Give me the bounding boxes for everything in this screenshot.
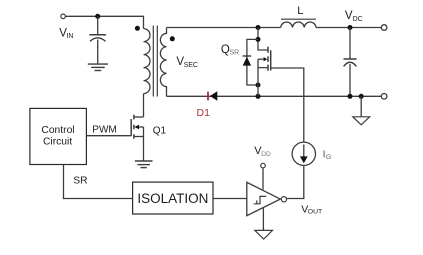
transformer secondary phasing dot — [170, 36, 175, 41]
current source IG circle — [292, 142, 315, 165]
ground: buffer (open triangle) — [255, 230, 273, 239]
ground: output side (open triangle) — [353, 117, 370, 125]
input terminal VIN — [61, 14, 66, 19]
QSR body diode cathode bar — [243, 55, 252, 57]
wire: inductor to VDC terminal — [316, 27, 381, 29]
svg-text:SR: SR — [230, 50, 240, 57]
wire: QSR drain vertical from top rail — [258, 28, 267, 51]
diode D1 red cathode bar — [207, 92, 209, 101]
transformer T1 primary winding — [144, 29, 151, 94]
Q1 body arrow lead — [139, 126, 144, 128]
QSR channel contacts — [267, 47, 269, 71]
wire: primary bottom to Q1 drain — [143, 94, 145, 117]
transformer core — [153, 26, 157, 97]
node: output ground junction — [359, 94, 364, 99]
node: QSR body-diode branch bottom — [256, 83, 261, 88]
node: input cap junction — [95, 14, 100, 19]
wire: Q1 source to ground — [143, 127, 145, 161]
label Control Circuit — [41, 125, 74, 148]
node: C_OUT bottom junction — [348, 94, 353, 99]
node: QSR drain on top rail — [256, 25, 261, 30]
Q1 body arrow — [134, 125, 139, 129]
QSR gate bar — [270, 50, 272, 70]
QSR body arrow — [264, 57, 268, 61]
wire: top rail secondary to inductor — [167, 27, 281, 29]
diode D1 body — [210, 91, 217, 100]
wire: VDD to buffer — [262, 168, 264, 190]
VDD terminal circle — [261, 163, 266, 168]
inductor L core bar — [281, 18, 316, 20]
ground: Q1 (3-bar) — [135, 161, 153, 168]
output terminal VDC minus — [381, 94, 387, 100]
QSR body arrow lead — [258, 58, 264, 60]
Q1 gate bar — [130, 119, 132, 136]
node: output cap top junction — [348, 25, 353, 30]
svg-text:ISOLATION: ISOLATION — [137, 191, 208, 206]
control circuit box — [30, 108, 87, 164]
ground: input side (3-bar) — [88, 64, 108, 70]
buffer U1 (schmitt driver) — [247, 182, 280, 215]
node: QSR body-diode branch top — [256, 37, 261, 42]
wire: SR control to isolation — [64, 165, 133, 199]
capacitor C_IN top plate — [89, 34, 106, 36]
bottom rail: secondary to output terminal — [167, 95, 382, 97]
svg-text:DC: DC — [353, 16, 363, 23]
svg-text:G: G — [326, 154, 331, 161]
QSR body diode — [243, 57, 251, 66]
wire: QSR body diode branch — [247, 39, 258, 85]
label QSR — [221, 44, 239, 57]
svg-text:OUT: OUT — [308, 209, 322, 216]
label VSEC — [176, 56, 198, 69]
wire: QSR source vertical to bottom rail — [258, 59, 267, 96]
wire: top junction down to output capacitor — [349, 28, 351, 59]
Q1 source lead — [134, 136, 144, 138]
wire: QSR gate to current source — [271, 68, 304, 142]
svg-text:PWM: PWM — [92, 124, 116, 135]
capacitor C_OUT curved plate — [344, 62, 357, 66]
svg-text:Q1: Q1 — [153, 126, 167, 137]
capacitor C_IN curved plate — [90, 38, 106, 42]
buffer schmitt hysteresis symbol — [254, 196, 266, 203]
label VIN — [59, 28, 73, 41]
isolation box — [133, 182, 213, 214]
label VDD — [254, 145, 271, 158]
wire: C_IN to input ground — [97, 40, 99, 64]
wire: isolation output to buffer input — [213, 198, 247, 200]
svg-text:D1: D1 — [197, 107, 211, 119]
wire: VIN terminal to transformer primary top — [66, 16, 144, 28]
wire: PWM control to Q1 gate — [86, 135, 131, 137]
label VDC — [345, 10, 363, 23]
svg-text:SEC: SEC — [184, 62, 198, 69]
label IG — [323, 149, 332, 161]
wire: current source to VOUT node — [287, 165, 304, 199]
svg-text:L: L — [297, 5, 303, 17]
node: QSR source / D1 junction — [256, 94, 261, 99]
transformer primary phasing dot — [135, 26, 140, 31]
Q1 channel contacts — [133, 115, 135, 139]
inductor L — [281, 22, 316, 27]
wire: C_OUT to bottom rail — [349, 64, 351, 96]
buffer output bubble — [281, 197, 286, 202]
label VOUT — [301, 204, 322, 216]
wire: junction down to input capacitor — [97, 16, 99, 34]
svg-text:Control: Control — [41, 125, 74, 136]
svg-text:DD: DD — [261, 151, 271, 158]
wire: output ground stem — [360, 96, 362, 117]
transformer T1 secondary winding — [160, 28, 166, 97]
svg-text:Circuit: Circuit — [43, 137, 72, 148]
current source IG arrow — [303, 145, 305, 159]
Q1 drain lead — [134, 116, 144, 118]
capacitor C_OUT top plate — [344, 58, 357, 60]
wire: buffer ground stem — [262, 207, 264, 230]
output terminal VDC plus — [381, 25, 387, 31]
svg-text:SR: SR — [73, 176, 87, 187]
svg-text:IN: IN — [66, 33, 73, 40]
